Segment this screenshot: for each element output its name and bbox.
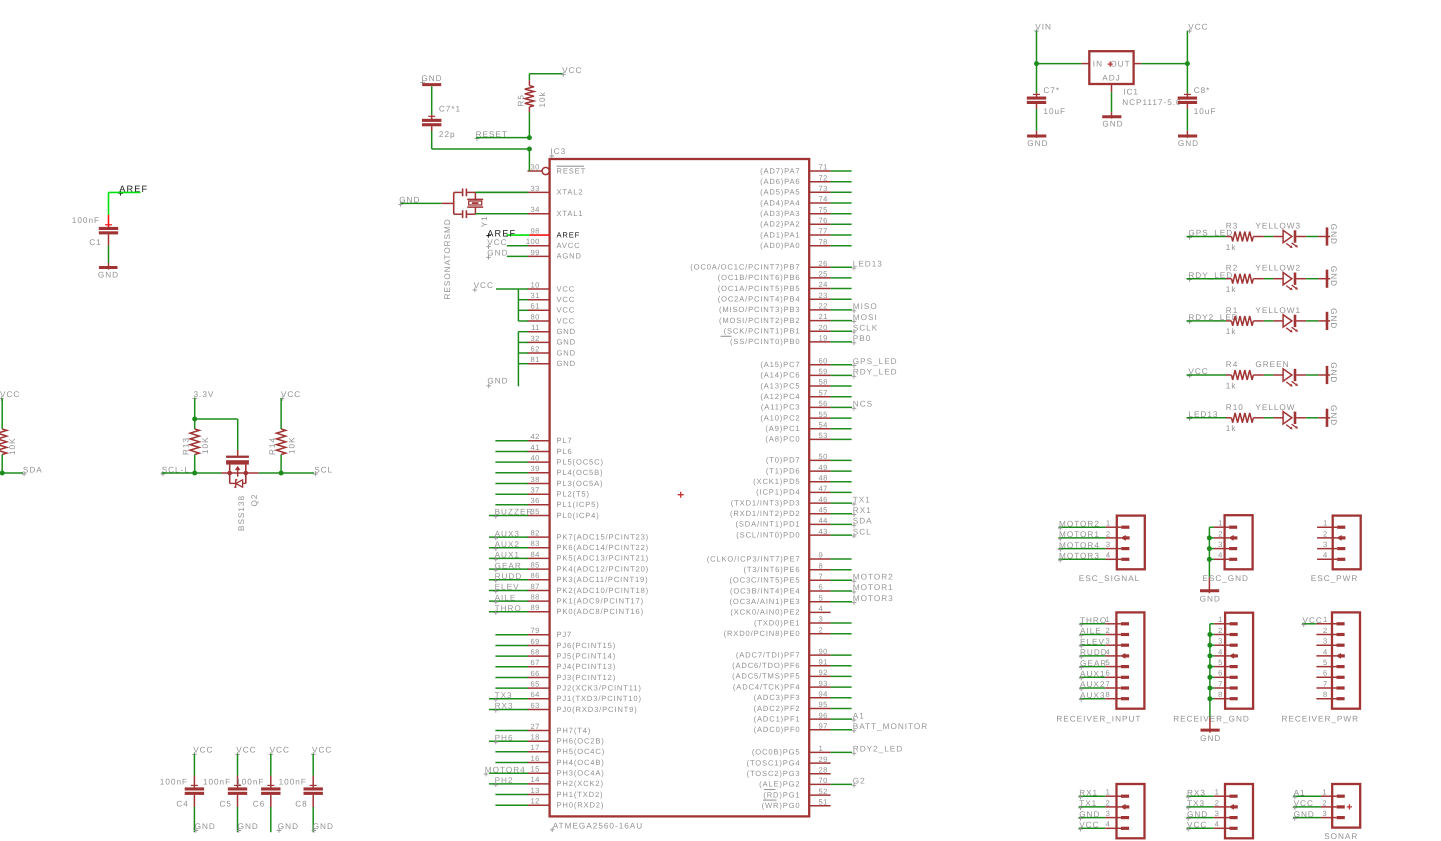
net SCL wire+label	[831, 534, 852, 536]
junction (RECEIVER_GND pin bus)	[1207, 675, 1212, 680]
svg-text:100nF: 100nF	[72, 216, 100, 225]
pin 72 (AD6)PA6 (right)	[809, 181, 830, 183]
regulator IC1 NCP1117-5.0 box	[1089, 51, 1133, 84]
junction SDA	[0, 471, 5, 476]
svg-text:53: 53	[819, 431, 828, 440]
svg-text:PK7(ADC15/PCINT23): PK7(ADC15/PCINT23)	[557, 532, 650, 541]
pin 47 (ICP1)PD4 (right)	[809, 491, 830, 493]
net RX3 wire+label	[489, 709, 528, 711]
svg-text:ESC_GND: ESC_GND	[1202, 574, 1249, 583]
ground symbol (LED YELLOW1)	[1326, 312, 1329, 330]
svg-text:GND: GND	[557, 359, 576, 368]
net MOTOR4 wire+label	[489, 772, 528, 774]
capacitor C7* 10uF	[1036, 64, 1038, 94]
svg-text:GND: GND	[1294, 810, 1315, 819]
svg-text:ADJ: ADJ	[1102, 73, 1120, 82]
svg-text:TX1: TX1	[1079, 799, 1097, 808]
ground symbol (C1)	[99, 266, 118, 269]
svg-text:(ADC3)PF3: (ADC3)PF3	[754, 693, 801, 702]
svg-text:C4: C4	[176, 799, 188, 808]
svg-text:PJ2(XCK3/PCINT11): PJ2(XCK3/PCINT11)	[557, 683, 642, 692]
svg-text:79: 79	[531, 626, 540, 635]
connector RECEIVER_GND box	[1225, 613, 1253, 709]
net MOTOR2 wire+label	[831, 579, 852, 581]
pin 28 (TOSC2)PG3 (right)	[809, 773, 830, 775]
svg-text:G2: G2	[853, 777, 866, 786]
svg-text:PH2: PH2	[495, 776, 514, 785]
svg-text:C8: C8	[295, 799, 307, 808]
pin 27 PH7(T4) (left)	[528, 730, 550, 732]
svg-text:7: 7	[1323, 679, 1328, 688]
svg-text:(ALE)PG2: (ALE)PG2	[759, 780, 800, 789]
junction VIN/C7*	[1034, 61, 1039, 66]
wire 3.3V to Q2 gate	[195, 418, 238, 420]
svg-text:(MISO/PCINT3)PB3: (MISO/PCINT3)PB3	[719, 305, 801, 314]
svg-text:3: 3	[1323, 637, 1328, 646]
svg-text:74: 74	[819, 195, 828, 204]
pin 39 PL4(OC5B) (left)	[528, 472, 550, 474]
pin 58 (A13)PC5 (right)	[809, 385, 830, 387]
svg-text:GND: GND	[557, 338, 576, 347]
svg-text:(A13)PC5: (A13)PC5	[760, 381, 800, 390]
pin 49 (T1)PD6 (right)	[809, 470, 830, 472]
svg-text:10K: 10K	[8, 437, 17, 455]
svg-text:5: 5	[819, 593, 824, 602]
net NCS wire+label	[831, 406, 852, 408]
pin 2 (RXD0/PCIN8)PE0 (right)	[809, 633, 830, 635]
svg-text:52: 52	[819, 787, 828, 796]
pin 65 PJ2(XCK3/PCINT11) (left)	[528, 687, 550, 689]
svg-text:50: 50	[819, 452, 828, 461]
junction (ESC_GND pin bus)	[1207, 557, 1212, 562]
LED YELLOW1	[1273, 320, 1283, 322]
junction (ESC_GND pin bus)	[1207, 546, 1212, 551]
svg-text:(CLKO/ICP3/INT7)PE7: (CLKO/ICP3/INT7)PE7	[707, 554, 801, 563]
svg-text:64: 64	[531, 690, 540, 699]
svg-text:PB0: PB0	[853, 334, 871, 343]
wire R2 to LED	[1264, 278, 1274, 280]
svg-text:PL3(OC5A): PL3(OC5A)	[557, 479, 604, 488]
svg-text:3: 3	[1218, 637, 1223, 646]
svg-text:51: 51	[819, 798, 828, 807]
svg-text:GND: GND	[421, 74, 442, 83]
wire GND bus (RECEIVER_GND)	[1209, 624, 1211, 717]
svg-text:PH6(OC2B): PH6(OC2B)	[557, 737, 605, 746]
svg-text:SONAR: SONAR	[1324, 832, 1358, 841]
RECEIVER_GND pin 3	[1230, 644, 1238, 647]
net VCC (R5 top)	[529, 73, 562, 75]
svg-text:(AD3)PA3: (AD3)PA3	[760, 209, 800, 218]
svg-text:85: 85	[531, 561, 540, 570]
net SDA wire+label	[2, 472, 23, 474]
pin 20 (SCK/PCINT1)PB1 (right)	[809, 330, 830, 332]
net THRO wire+label	[489, 611, 528, 613]
pin 97 (ADC0)PF0 (right)	[809, 729, 830, 731]
svg-text:VCC: VCC	[1188, 22, 1208, 31]
net GND wire+label	[507, 255, 528, 257]
junction (RECEIVER_GND pin bus)	[1207, 653, 1212, 658]
pin 8 (T3/INT6)PE6 (right)	[809, 569, 830, 571]
svg-text:4: 4	[1218, 551, 1223, 560]
svg-text:AUX1: AUX1	[495, 551, 520, 560]
wire C7*1 to reset node	[431, 131, 433, 149]
net GPS_LED wire+label	[831, 364, 852, 366]
wire R4 to LED	[1264, 374, 1274, 376]
RX1_CONN pin 4	[1121, 827, 1129, 830]
svg-text:GND: GND	[557, 327, 576, 336]
svg-text:PH7(T4): PH7(T4)	[557, 726, 592, 735]
resistor R10 1k	[1226, 417, 1232, 419]
svg-text:77: 77	[819, 227, 828, 236]
svg-text:LED13: LED13	[853, 259, 883, 268]
svg-text:(OC1A/PCINT5)PB5: (OC1A/PCINT5)PB5	[718, 284, 801, 293]
svg-text:PK6(ADC14/PCINT22): PK6(ADC14/PCINT22)	[557, 543, 650, 552]
svg-text:58: 58	[819, 378, 828, 387]
pin 89 PK0(ADC8/PCINT16) (left)	[528, 611, 550, 613]
pin 42 PL7 (left)	[528, 440, 550, 442]
net VCC bus to pins 10/31/61/80	[496, 288, 518, 290]
svg-text:VCC: VCC	[1079, 821, 1099, 830]
RX1_CONN pin 1	[1121, 795, 1129, 798]
svg-text:88: 88	[531, 593, 540, 602]
svg-text:8: 8	[819, 561, 824, 570]
svg-text:(T1)PD6: (T1)PD6	[766, 466, 801, 475]
svg-text:(AD5)PA5: (AD5)PA5	[760, 188, 800, 197]
svg-text:R14: R14	[268, 437, 277, 455]
RECEIVER_INPUT pin 3	[1121, 644, 1129, 647]
RECEIVER_GND pin 8	[1230, 697, 1238, 700]
svg-text:PK0(ADC8/PCINT16): PK0(ADC8/PCINT16)	[557, 607, 644, 616]
svg-text:(ADC1)PF1: (ADC1)PF1	[754, 714, 801, 723]
svg-text:96: 96	[819, 711, 828, 720]
pin 50 (T0)PD7 (right)	[809, 459, 830, 461]
svg-text:PH0(RXD2): PH0(RXD2)	[557, 801, 605, 810]
wire LED YELLOW1 to GND	[1306, 320, 1318, 322]
svg-text:THRO: THRO	[1080, 616, 1107, 625]
svg-text:RX1: RX1	[1079, 788, 1098, 797]
svg-text:GND: GND	[1187, 810, 1208, 819]
svg-text:19: 19	[819, 334, 828, 343]
svg-text:1k: 1k	[1226, 243, 1237, 252]
svg-text:100nF: 100nF	[160, 777, 188, 786]
svg-text:(ADC4/TCK)PF4: (ADC4/TCK)PF4	[733, 682, 801, 691]
pin 81 GND (left)	[528, 363, 550, 365]
svg-text:(ICP1)PD4: (ICP1)PD4	[756, 488, 800, 497]
wire C6 to GND	[270, 807, 272, 832]
ESC_PWR pin 1	[1337, 526, 1345, 529]
svg-text:36: 36	[531, 496, 540, 505]
capacitor C8* 10uF	[1186, 64, 1188, 94]
svg-text:Y1: Y1	[480, 215, 489, 227]
svg-text:83: 83	[531, 539, 540, 548]
junction reset/C7*1	[527, 147, 532, 152]
pin 51 (WR)PG0 (right)	[809, 805, 830, 807]
pin 7 (OC3C/INT5)PE5 (right)	[809, 579, 830, 581]
svg-text:(OC1B/PCINT6)PB6: (OC1B/PCINT6)PB6	[718, 273, 801, 282]
ground symbol (LED YELLOW3)	[1326, 227, 1329, 245]
svg-text:70: 70	[819, 776, 828, 785]
pin 6 (OC3B/INT4)PE4 (right)	[809, 590, 830, 592]
svg-text:2: 2	[1322, 798, 1327, 807]
junction (RECEIVER_GND pin bus)	[1207, 632, 1212, 637]
svg-text:ESC_SIGNAL: ESC_SIGNAL	[1079, 574, 1140, 583]
svg-text:56: 56	[819, 399, 828, 408]
RX3_CONN pin 1	[1230, 795, 1238, 798]
RECEIVER_GND pin 7	[1230, 686, 1238, 689]
svg-text:3: 3	[1323, 540, 1328, 549]
svg-text:94: 94	[819, 690, 828, 699]
pin 74 (AD4)PA4 (right)	[809, 202, 830, 204]
pin 21 (MOSI/PCINT2)PB2 (right)	[809, 320, 830, 322]
wire C1 to GND	[108, 246, 110, 263]
pin 41 PL6 (left)	[528, 451, 550, 453]
svg-text:1: 1	[1322, 788, 1327, 797]
ground symbol (ESC_GND)	[1200, 589, 1219, 592]
svg-text:97: 97	[819, 722, 828, 731]
wire LED YELLOW3 to GND	[1306, 236, 1318, 238]
junction (ESC_GND pin bus)	[1207, 535, 1212, 540]
svg-text:BSS138: BSS138	[237, 495, 246, 531]
net RDY2_LED wire+label	[831, 751, 852, 753]
svg-text:XTAL1: XTAL1	[557, 209, 584, 218]
svg-text:(ADC5/TMS)PF5: (ADC5/TMS)PF5	[732, 672, 800, 681]
svg-text:4: 4	[1106, 820, 1111, 829]
RECEIVER_INPUT pin 6	[1121, 676, 1129, 679]
svg-text:C7*: C7*	[1043, 86, 1060, 95]
svg-text:(A9)PC1: (A9)PC1	[765, 424, 800, 433]
ground symbol (C8*)	[1178, 135, 1197, 138]
svg-text:(OC3C/INT5)PE5: (OC3C/INT5)PE5	[730, 576, 801, 585]
svg-text:NCP1117-5.0: NCP1117-5.0	[1122, 98, 1181, 107]
pin 33 XTAL2 (left)	[528, 191, 550, 193]
pin 68 PJ5(PCINT14) (left)	[528, 655, 550, 657]
RECEIVER_INPUT pin 8	[1121, 697, 1129, 700]
svg-text:7: 7	[819, 572, 824, 581]
svg-text:2: 2	[1106, 798, 1111, 807]
wire GND bus (ESC_GND)	[1208, 527, 1210, 577]
pin 48 (XCK1)PD5 (right)	[809, 481, 830, 483]
net AUX2 wire+label	[489, 547, 528, 549]
svg-text:6: 6	[1218, 669, 1223, 678]
svg-text:VIN: VIN	[1035, 22, 1052, 31]
pin 55 (A10)PC2 (right)	[809, 417, 830, 419]
svg-text:C6: C6	[253, 799, 265, 808]
svg-text:22: 22	[819, 302, 828, 311]
svg-text:80: 80	[531, 312, 540, 321]
svg-text:(OC3A/AIN1)PE3: (OC3A/AIN1)PE3	[730, 597, 801, 606]
svg-text:44: 44	[819, 516, 828, 525]
net AILE wire+label	[489, 600, 528, 602]
pin 91 (ADC6/TDO)PF6 (right)	[809, 665, 830, 667]
wire Q2 to SCL	[259, 472, 314, 474]
svg-text:3: 3	[1106, 809, 1111, 818]
svg-text:R10: R10	[1226, 403, 1244, 412]
svg-text:VCC: VCC	[557, 295, 576, 304]
svg-text:1k: 1k	[1226, 285, 1237, 294]
svg-text:8: 8	[1105, 690, 1110, 699]
svg-text:(AD2)PA2: (AD2)PA2	[760, 220, 800, 229]
pin 100 AVCC (left)	[528, 245, 550, 247]
svg-text:(SDA/INT1)PD1: (SDA/INT1)PD1	[735, 520, 800, 529]
svg-text:PK3(ADC11/PCINT19): PK3(ADC11/PCINT19)	[557, 575, 649, 584]
svg-text:VCC: VCC	[193, 746, 213, 755]
svg-text:(AD0)PA0: (AD0)PA0	[760, 241, 800, 250]
pin 17 PH5(OC4C) (left)	[528, 751, 550, 753]
svg-text:RDY_LED: RDY_LED	[853, 368, 898, 377]
pin 3 (TXD0)PE1 (right)	[809, 622, 830, 624]
wire C8* to GND	[1186, 109, 1188, 131]
pin 11 GND (left)	[528, 331, 550, 333]
svg-text:GND: GND	[487, 377, 508, 386]
svg-text:(RD)PG1: (RD)PG1	[763, 790, 800, 799]
RECEIVER_PWR pin 4	[1336, 653, 1341, 659]
svg-text:TX3: TX3	[1187, 799, 1205, 808]
ESC_PWR pin 4	[1337, 558, 1345, 561]
svg-text:PH3(OC4A): PH3(OC4A)	[557, 769, 605, 778]
svg-text:32: 32	[531, 334, 540, 343]
svg-text:65: 65	[531, 680, 540, 689]
wire LED GREEN to GND	[1306, 374, 1318, 376]
svg-text:47: 47	[819, 484, 828, 493]
pin 82 PK7(ADC15/PCINT23) (left)	[528, 536, 550, 538]
svg-text:MOTOR4: MOTOR4	[485, 765, 526, 774]
capacitor C7*1 22p	[431, 115, 433, 119]
RX1_CONN pin 2	[1120, 804, 1125, 810]
svg-text:YELLOW1: YELLOW1	[1255, 306, 1301, 315]
SONAR pin 1	[1337, 795, 1345, 798]
capacitor C4 100nF	[193, 776, 195, 788]
svg-text:66: 66	[531, 669, 540, 678]
RX3_CONN pin 2	[1229, 804, 1234, 810]
pin 86 PK3(ADC11/PCINT19) (left)	[528, 579, 550, 581]
svg-text:(A10)PC2: (A10)PC2	[760, 413, 800, 422]
svg-text:84: 84	[531, 550, 540, 559]
net SCLK wire+label	[831, 330, 852, 332]
svg-text:(A8)PC0: (A8)PC0	[765, 435, 800, 444]
pin 22 (MISO/PCINT3)PB3 (right)	[809, 309, 830, 311]
svg-text:VCC: VCC	[270, 746, 290, 755]
svg-text:(TOSC2)PG3: (TOSC2)PG3	[747, 769, 801, 778]
svg-text:PH5(OC4C): PH5(OC4C)	[557, 747, 606, 756]
svg-text:RX3: RX3	[495, 702, 514, 711]
svg-text:(SCL/INT0)PD0: (SCL/INT0)PD0	[736, 530, 800, 539]
svg-text:48: 48	[819, 473, 828, 482]
svg-text:(TXD1/INT3)PD3: (TXD1/INT3)PD3	[731, 498, 801, 507]
pin 12 PH0(RXD2) (left)	[528, 804, 550, 806]
RECEIVER_INPUT pin 1	[1121, 622, 1129, 625]
svg-text:VCC: VCC	[562, 66, 582, 75]
svg-text:2: 2	[1105, 626, 1110, 635]
connector ESC_PWR box	[1333, 516, 1361, 570]
svg-text:1k: 1k	[1226, 424, 1237, 433]
ESC_PWR pin 3	[1337, 547, 1345, 550]
svg-text:NCS: NCS	[853, 400, 873, 409]
svg-text:12: 12	[531, 797, 540, 806]
svg-text:(A11)PC3: (A11)PC3	[761, 403, 801, 412]
svg-text:61: 61	[531, 302, 540, 311]
svg-text:49: 49	[819, 463, 828, 472]
pin 62 GND (left)	[528, 352, 550, 354]
svg-text:4: 4	[1323, 551, 1328, 560]
wire through Q2 (drain-source)	[222, 472, 259, 474]
svg-text:PJ5(PCINT14): PJ5(PCINT14)	[557, 651, 617, 660]
pin 5 (OC3A/AIN1)PE3 (right)	[809, 601, 830, 603]
svg-text:82: 82	[531, 529, 540, 538]
RECEIVER_PWR pin 3	[1337, 644, 1345, 647]
pin 38 PL3(OC5A) (left)	[528, 483, 550, 485]
svg-text:2: 2	[1218, 529, 1223, 538]
svg-text:RX1: RX1	[853, 506, 872, 515]
ESC_SIGNAL pin 3	[1121, 547, 1129, 550]
svg-text:RESONATORSMD: RESONATORSMD	[443, 218, 452, 299]
svg-text:VCC: VCC	[557, 306, 576, 315]
svg-text:28: 28	[819, 765, 828, 774]
pin 69 PJ6(PCINT15) (left)	[528, 645, 550, 647]
svg-text:(OC0A/OC1C/PCINT7)PB7: (OC0A/OC1C/PCINT7)PB7	[690, 263, 800, 272]
svg-text:TX3: TX3	[495, 691, 513, 700]
svg-text:PL7: PL7	[557, 436, 573, 445]
svg-text:1: 1	[1218, 519, 1223, 528]
svg-text:GND: GND	[1178, 139, 1199, 148]
svg-text:81: 81	[531, 355, 540, 364]
svg-text:VCC: VCC	[1187, 821, 1207, 830]
RECEIVER_PWR pin 2	[1337, 633, 1345, 636]
junction reset/R5	[527, 135, 532, 140]
svg-text:75: 75	[819, 205, 828, 214]
svg-text:GPS_LED: GPS_LED	[853, 357, 898, 366]
junction R13/SCL-L	[192, 471, 197, 476]
svg-text:VCC: VCC	[487, 238, 507, 247]
resonator Y1 RESONATORSMD	[442, 202, 454, 204]
pin 73 (AD5)PA5 (right)	[809, 191, 830, 193]
wire Y1 to XTAL1 pin 34	[475, 213, 528, 215]
svg-text:37: 37	[531, 486, 540, 495]
wire IC1 OUT to VCC	[1134, 63, 1142, 65]
svg-text:6: 6	[1323, 669, 1328, 678]
svg-text:13: 13	[531, 786, 540, 795]
svg-text:(OC0B)PG5: (OC0B)PG5	[752, 748, 801, 757]
pin 15 PH3(OC4A) (left)	[528, 772, 550, 774]
svg-text:GND: GND	[1027, 139, 1048, 148]
svg-text:PL2(T5): PL2(T5)	[557, 490, 590, 499]
pin 18 PH6(OC2B) (left)	[528, 740, 550, 742]
svg-text:1: 1	[1323, 519, 1328, 528]
svg-text:IC1: IC1	[1123, 88, 1139, 97]
svg-text:24: 24	[819, 280, 828, 289]
svg-text:BUZZER: BUZZER	[495, 508, 534, 517]
svg-text:1: 1	[1106, 519, 1111, 528]
svg-text:22p: 22p	[439, 130, 456, 139]
capacitor C8 100nF	[312, 776, 314, 788]
wire IC1 ADJ to GND	[1111, 84, 1113, 92]
LED YELLOW	[1273, 417, 1283, 419]
svg-text:1: 1	[1323, 615, 1328, 624]
svg-text:PK2(ADC10/PCINT18): PK2(ADC10/PCINT18)	[557, 586, 650, 595]
svg-text:72: 72	[819, 173, 828, 182]
svg-text:PH1(TXD2): PH1(TXD2)	[557, 790, 604, 799]
net TX3 wire+label	[489, 698, 528, 700]
svg-text:GND: GND	[487, 249, 508, 258]
pin 85 PK4(ADC12/PCINT20) (left)	[528, 568, 550, 570]
svg-text:AUX2: AUX2	[1080, 680, 1105, 689]
svg-text:GND: GND	[195, 822, 216, 831]
svg-text:69: 69	[531, 637, 540, 646]
junction (RECEIVER_GND pin bus)	[1207, 686, 1212, 691]
svg-text:OUT: OUT	[1110, 60, 1130, 69]
svg-text:SCL: SCL	[314, 465, 333, 474]
svg-text:IN: IN	[1093, 60, 1103, 69]
pin 71 (AD7)PA7 (right)	[809, 170, 830, 172]
